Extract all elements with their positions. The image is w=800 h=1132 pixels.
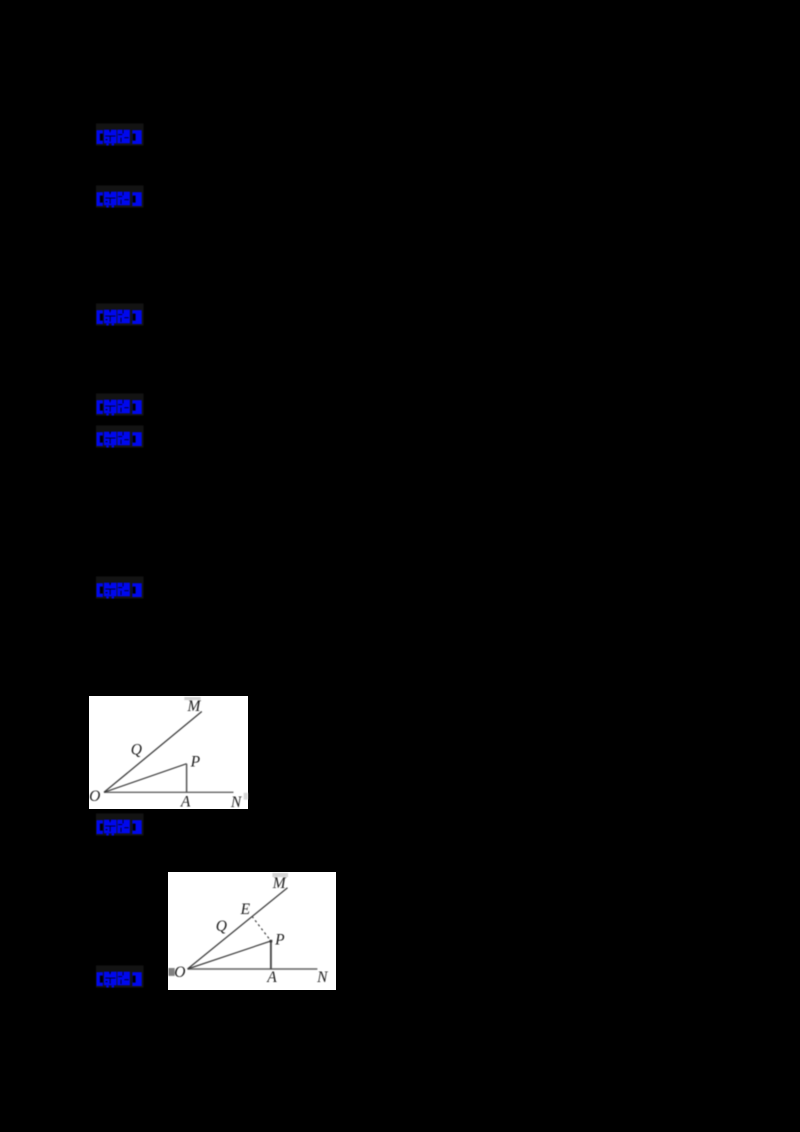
P junction dot [269,939,272,942]
gray smudge top [272,872,288,876]
blue keyword label 【解答】 (problem 2 solution) [96,425,144,448]
segment PA [185,763,187,792]
segment OP [187,940,270,968]
blue keyword label 【点评】 (problem 2 comment) [96,576,144,599]
figure image 2 : angle MON with E on OM, dashed EP, rays OP, PA [168,872,336,990]
svg-text:P: P [274,931,285,948]
dashed segment EP [252,916,271,941]
svg-text:M: M [271,875,286,892]
ray ON [187,967,317,969]
segment OP [104,763,187,792]
blue keyword label 【点评】 (problem 1 comment) [96,303,144,326]
blue keyword label 【解答】 (problem 1 solution) [96,185,144,208]
svg-text:Q: Q [215,917,226,934]
svg-text:E: E [239,901,250,918]
blue keyword label 【解答】 (problem 3 solution) [96,965,144,988]
shared defs for the blue CJK tag artwork [0,0,1,1]
svg-text:M: M [186,698,201,715]
figure image 1 : angle MON with rays OP, PA [89,696,248,809]
ray OM [104,711,202,792]
svg-text:A: A [179,793,190,809]
svg-text:P: P [189,753,200,770]
segment PA [269,940,271,968]
gray smudge right [243,792,247,799]
gray smudge top [184,697,200,700]
ray OM [187,887,287,968]
svg-text:N: N [229,794,242,809]
ray ON [104,791,234,793]
svg-text:O: O [174,963,185,980]
blue keyword label 【分析】 (problem 1 analysis) [96,123,144,146]
blue keyword label 【分析】 (problem 2 analysis) [96,393,144,416]
blue keyword label 【分析】 (problem 3 analysis) [96,813,144,836]
gray smudge left [168,967,174,975]
svg-text:A: A [266,968,277,985]
svg-text:Q: Q [130,741,141,758]
svg-text:O: O [89,788,100,805]
svg-text:N: N [316,968,329,985]
